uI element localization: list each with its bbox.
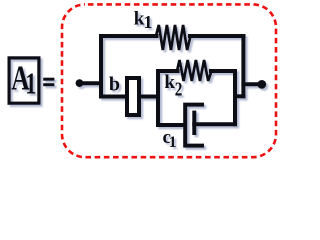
svg-text:k: k [164,72,175,93]
node left [76,79,84,87]
wire left node to left rail [78,81,101,85]
wire top branch right [190,34,243,38]
spring k2 [177,60,212,81]
wire k2 branch right [211,69,235,73]
wire b branch [101,95,158,99]
wire k2 branch left [158,69,178,73]
wire right rail to right node [243,82,258,86]
damper c1 rod [194,122,235,126]
svg-text:2: 2 [175,79,183,101]
A1 coefficient box [9,58,39,103]
wire top branch [101,34,157,38]
damper c1 cylinder [185,105,202,146]
equals sign [43,78,54,81]
red dashed enclosure [62,4,276,157]
damper b body [127,78,139,115]
damper c1 piston [192,113,196,133]
svg-text:1: 1 [169,134,177,151]
wire jog inner-right rail to right rail [235,94,243,98]
wire left rail [99,36,103,96]
svg-text:b: b [109,74,120,96]
svg-text:1: 1 [25,66,36,101]
wire inner-right rail [233,71,237,124]
spring k1 [156,25,191,50]
wire right rail [241,36,245,96]
wire c1 branch [158,123,183,127]
wire inner-left rail [156,71,160,125]
svg-text:1: 1 [144,12,153,32]
node right [257,80,266,89]
